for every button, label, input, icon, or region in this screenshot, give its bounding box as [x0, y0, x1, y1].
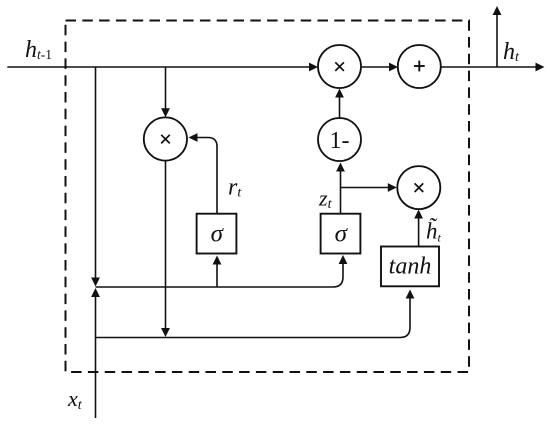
wire: adder U3 to h_t output: [441, 66, 536, 68]
multiply node U1 (r gate x h): [144, 117, 187, 160]
arrowhead into multiply U5 left: [388, 183, 397, 192]
multiply node U2 ((1-z) x h): [318, 45, 361, 88]
wire: bus1 branch up into sigma G1: [216, 264, 218, 287]
arrowhead h_t branch up: [493, 6, 502, 15]
wire: multiply U2 to adder U3: [361, 66, 390, 68]
arrowhead x_t up onto bus1: [91, 288, 100, 297]
arrowhead into multiply U1 right: [189, 133, 198, 142]
arrowhead into 1- node U4 bottom: [336, 163, 345, 172]
wire: h branch down at x=95.5 to bus1: [95, 67, 97, 279]
adder node U3: [398, 45, 441, 88]
wire: z_t from sigma G2 up to 1- node U4: [340, 171, 342, 214]
dashed cell boundary: [66, 21, 470, 373]
wire: 1- node U4 up into multiply U2: [339, 97, 341, 118]
wire: bus1 horizontal to sigma G2: [96, 263, 344, 287]
wire: h_t branch upward: [496, 15, 498, 68]
wire: x_t input vertical: [95, 296, 97, 418]
tanh gate G3 (candidate): [381, 247, 439, 287]
svg-text:σ: σ: [335, 221, 349, 248]
wire: r_t feedback from sigma G1 up and left into multiply U1: [197, 138, 217, 214]
arrowhead into multiply node U2: [309, 63, 318, 72]
arrowhead down onto bus1: [91, 278, 100, 287]
arrowhead into adder U3: [389, 63, 398, 72]
1-minus node U4: [318, 118, 361, 161]
arrowhead into multiply U2 bottom: [335, 89, 344, 98]
wire: tanh G3 output up into multiply U5: [418, 218, 420, 247]
wire: main h line from h_t-1 input: [7, 66, 309, 68]
svg-text:tanh: tanh: [389, 254, 432, 280]
svg-text:1-: 1-: [330, 128, 350, 154]
arrowhead h_t output right: [536, 63, 545, 72]
sigma gate G2 (update gate): [321, 214, 361, 254]
multiply node U5 (z x h~): [397, 166, 440, 209]
wire: multiply U1 output down to bus2: [165, 161, 167, 329]
arrowhead down onto bus2: [161, 328, 170, 337]
arrowhead into multiply U1 top: [161, 108, 170, 117]
arrowhead into tanh G3 bottom: [406, 290, 415, 299]
wire: h branch down at x=165.5 into multiply U1: [165, 67, 167, 109]
arrowhead into sigma G2 bottom: [339, 255, 348, 264]
arrowhead into multiply U5 bottom: [414, 210, 423, 219]
wire: z_t branch right into multiply U5: [341, 187, 389, 189]
wire: bus2 horizontal to tanh G3: [96, 298, 411, 338]
arrowhead into sigma G1 bottom: [213, 256, 222, 265]
sigma gate G1 (reset gate): [197, 214, 237, 254]
svg-text:σ: σ: [211, 221, 225, 248]
